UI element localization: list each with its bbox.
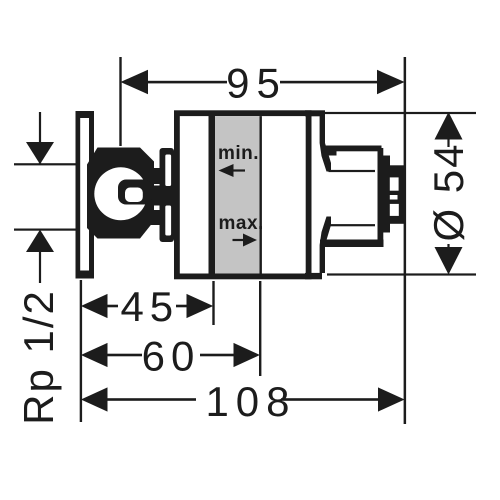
svg-text:Rp 1/2: Rp 1/2 [15, 289, 62, 425]
top stub right of box [305, 110, 325, 116]
dim line 45 left shaft [106, 305, 118, 308]
svg-text:min.: min. [218, 143, 259, 164]
extension line left of dim 95 [119, 57, 121, 146]
dim line dia54 bottom segment [447, 244, 449, 253]
spindle step bottom [382, 222, 390, 233]
min arrow [219, 164, 234, 177]
svg-text:95: 95 [226, 60, 287, 107]
spindle seen in bore [118, 180, 152, 205]
body side tab lower [151, 210, 160, 225]
arrowhead 95 right [377, 70, 405, 94]
arrowhead 108 right [378, 387, 405, 411]
dim line 95 right shaft [280, 81, 379, 84]
spindle cutout dash [390, 195, 398, 200]
spindle cutout lower [390, 204, 399, 216]
max arrow [233, 239, 245, 241]
cylinder right wall [378, 148, 384, 240]
arrowhead 45 right [187, 294, 214, 318]
extension line bottom for dia 54 [327, 273, 476, 275]
bore line bottom [329, 224, 376, 226]
valve body blob [87, 148, 154, 239]
bracket slot lower [165, 206, 171, 236]
dim line 60 right shaft [200, 354, 235, 357]
spindle square hole [125, 188, 143, 203]
body side tab upper [151, 168, 160, 184]
cylinder top bar [326, 146, 382, 152]
extension line 45 plane [212, 281, 214, 325]
extension line bottom left (wall plane) [80, 280, 82, 422]
connector bracket [160, 148, 175, 242]
svg-text:60: 60 [142, 333, 201, 380]
body bore circle [94, 167, 147, 220]
arrowhead dia54 top [435, 112, 463, 140]
dim line 45 right shaft [176, 305, 188, 308]
svg-text:45: 45 [120, 283, 179, 330]
dim line 108 left shaft [106, 398, 196, 401]
arrowhead dia54 bottom [435, 247, 463, 275]
housing inner thick line (45 plane) [209, 116, 216, 274]
adjustment gray zone [215, 116, 260, 273]
dim line 108 right shaft [281, 398, 379, 401]
extension line upper left (Rp1/2 top) [14, 163, 76, 165]
spindle step top [382, 156, 390, 168]
svg-text:108: 108 [205, 378, 296, 425]
Rp arrow up [26, 230, 54, 252]
arrowhead 45 left [81, 294, 108, 318]
extension line 60 plane [259, 281, 261, 376]
arrowhead 95 left [121, 70, 149, 94]
bracket slot upper [165, 155, 171, 187]
cylinder bottom bar [320, 240, 384, 248]
spindle cutout upper [390, 177, 399, 190]
arrowhead 108 left [81, 387, 108, 411]
bore line top [329, 170, 376, 172]
flange plate [76, 111, 95, 279]
arrowhead 60 right [234, 343, 260, 367]
cartridge housing box [177, 113, 309, 276]
extension line lower left (Rp1/2 bottom) [14, 229, 76, 231]
Rp dim shaft bottom [39, 251, 41, 283]
Rp arrow down [26, 142, 54, 164]
bottom stub right of box [305, 273, 322, 279]
dim line 60 left shaft [106, 354, 142, 357]
cylinder top bar left step [326, 146, 337, 156]
Rp dim shaft top [39, 112, 41, 164]
top hook [320, 115, 331, 172]
dim line dia54 top segment [447, 138, 449, 147]
svg-text:Ø 54: Ø 54 [425, 142, 472, 241]
svg-text:max.: max. [219, 213, 264, 234]
bottom hook [320, 217, 331, 274]
housing inner thin line (60 plane) [260, 116, 262, 273]
flange slot [80, 118, 89, 271]
spindle block [382, 165, 405, 224]
dim line 95 left shaft [145, 81, 227, 84]
arrowhead 60 left [81, 343, 108, 367]
extension line top for dia 54 [325, 112, 476, 114]
body side tab middle [151, 186, 165, 206]
extension line right of dim 95 / 108 [404, 57, 407, 424]
